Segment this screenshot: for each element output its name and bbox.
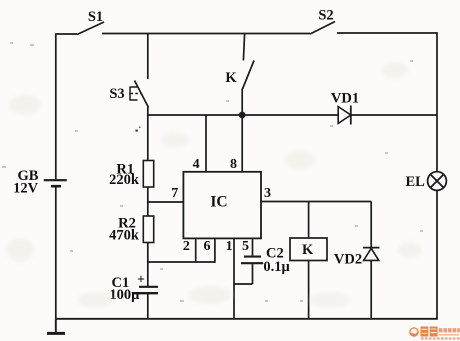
wire R1 to R2 xyxy=(147,187,149,216)
svg-text:K: K xyxy=(302,242,314,258)
svg-text:220k: 220k xyxy=(109,172,140,188)
svg-text:S1: S1 xyxy=(88,9,103,25)
watermark logo xyxy=(409,327,460,340)
wire VD2 to rail xyxy=(370,260,372,319)
wire node y262 to pins 2 and 6 xyxy=(148,261,215,263)
svg-text:+: + xyxy=(137,272,145,287)
wire node line left (S3 to K junction) xyxy=(148,114,242,116)
wire left vertical upper xyxy=(55,34,57,181)
wire relay to rail xyxy=(308,261,310,320)
wire pin 7 xyxy=(148,201,184,203)
wire pin 1 drop to rail xyxy=(233,239,235,320)
relay K coil xyxy=(290,238,327,261)
wire S3 branch from top rail xyxy=(147,34,149,80)
wire pin 5 drop xyxy=(252,239,254,257)
lamp EL xyxy=(428,172,447,191)
svg-text:2: 2 xyxy=(183,239,190,254)
wire left vertical lower xyxy=(55,186,57,319)
switch K upper wire xyxy=(243,34,244,61)
battery GB negative plate xyxy=(51,185,61,188)
wire pin 6 drop xyxy=(214,239,216,263)
diode VD2 xyxy=(363,248,379,261)
svg-text:100μ: 100μ xyxy=(109,287,140,303)
op-amp IC U1 xyxy=(183,172,261,239)
wire C2 bottom to pin 1 xyxy=(234,263,253,284)
svg-text:EL: EL xyxy=(406,174,426,190)
wire pin 2 drop xyxy=(195,239,197,263)
svg-text:0.1μ: 0.1μ xyxy=(263,259,290,275)
diode VD1 xyxy=(338,106,351,125)
wire VD1 to right rail xyxy=(351,114,437,116)
switch S3 xyxy=(130,81,149,108)
svg-text:K: K xyxy=(225,70,237,86)
wire top rail middle segment xyxy=(102,33,310,35)
resistor R2 xyxy=(143,216,153,243)
svg-text:S2: S2 xyxy=(318,8,333,24)
wire right vertical upper xyxy=(436,33,438,172)
switch K xyxy=(243,61,255,90)
wire junction to VD1 xyxy=(242,114,338,116)
ground xyxy=(47,332,65,335)
wire right vertical lower xyxy=(436,190,438,319)
svg-text:S3: S3 xyxy=(109,86,124,102)
wire K to junction xyxy=(241,89,243,116)
wire S3 to node line xyxy=(147,107,149,116)
switch S2 xyxy=(310,22,335,35)
svg-text:1: 1 xyxy=(226,239,233,254)
svg-text:470k: 470k xyxy=(109,228,140,244)
wire relay branch drop xyxy=(308,202,310,239)
small scan mark below S3 xyxy=(136,127,141,132)
wire VD2 branch corner xyxy=(370,202,372,249)
junction dot node A xyxy=(239,112,246,119)
wire ground stem xyxy=(55,319,57,333)
wire C1 to rail xyxy=(147,293,149,319)
svg-text:12V: 12V xyxy=(13,181,39,197)
wire pin 3 line xyxy=(261,201,371,203)
wire R2 to C1 xyxy=(147,243,149,287)
svg-text:VD2: VD2 xyxy=(334,252,362,268)
switch S1 xyxy=(77,22,104,35)
wire top rail left segment xyxy=(56,33,78,35)
capacitor C1 xyxy=(134,287,158,293)
svg-text:6: 6 xyxy=(204,239,211,254)
svg-text:IC: IC xyxy=(210,194,227,211)
svg-text:7: 7 xyxy=(171,186,178,201)
svg-text:8: 8 xyxy=(230,157,237,172)
svg-text:VD1: VD1 xyxy=(331,91,359,107)
battery GB positive plate xyxy=(44,179,67,181)
svg-text:4: 4 xyxy=(193,157,200,172)
resistor R1 xyxy=(143,161,153,188)
capacitor C2 xyxy=(241,257,263,264)
svg-text:5: 5 xyxy=(242,239,249,254)
wire node to R1 xyxy=(147,115,149,161)
svg-text:3: 3 xyxy=(264,186,271,201)
wire pin 8 drop xyxy=(241,115,243,172)
wire bottom rail xyxy=(56,318,438,320)
wire pin 4 drop xyxy=(205,115,207,172)
wire top rail right segment xyxy=(337,32,438,34)
